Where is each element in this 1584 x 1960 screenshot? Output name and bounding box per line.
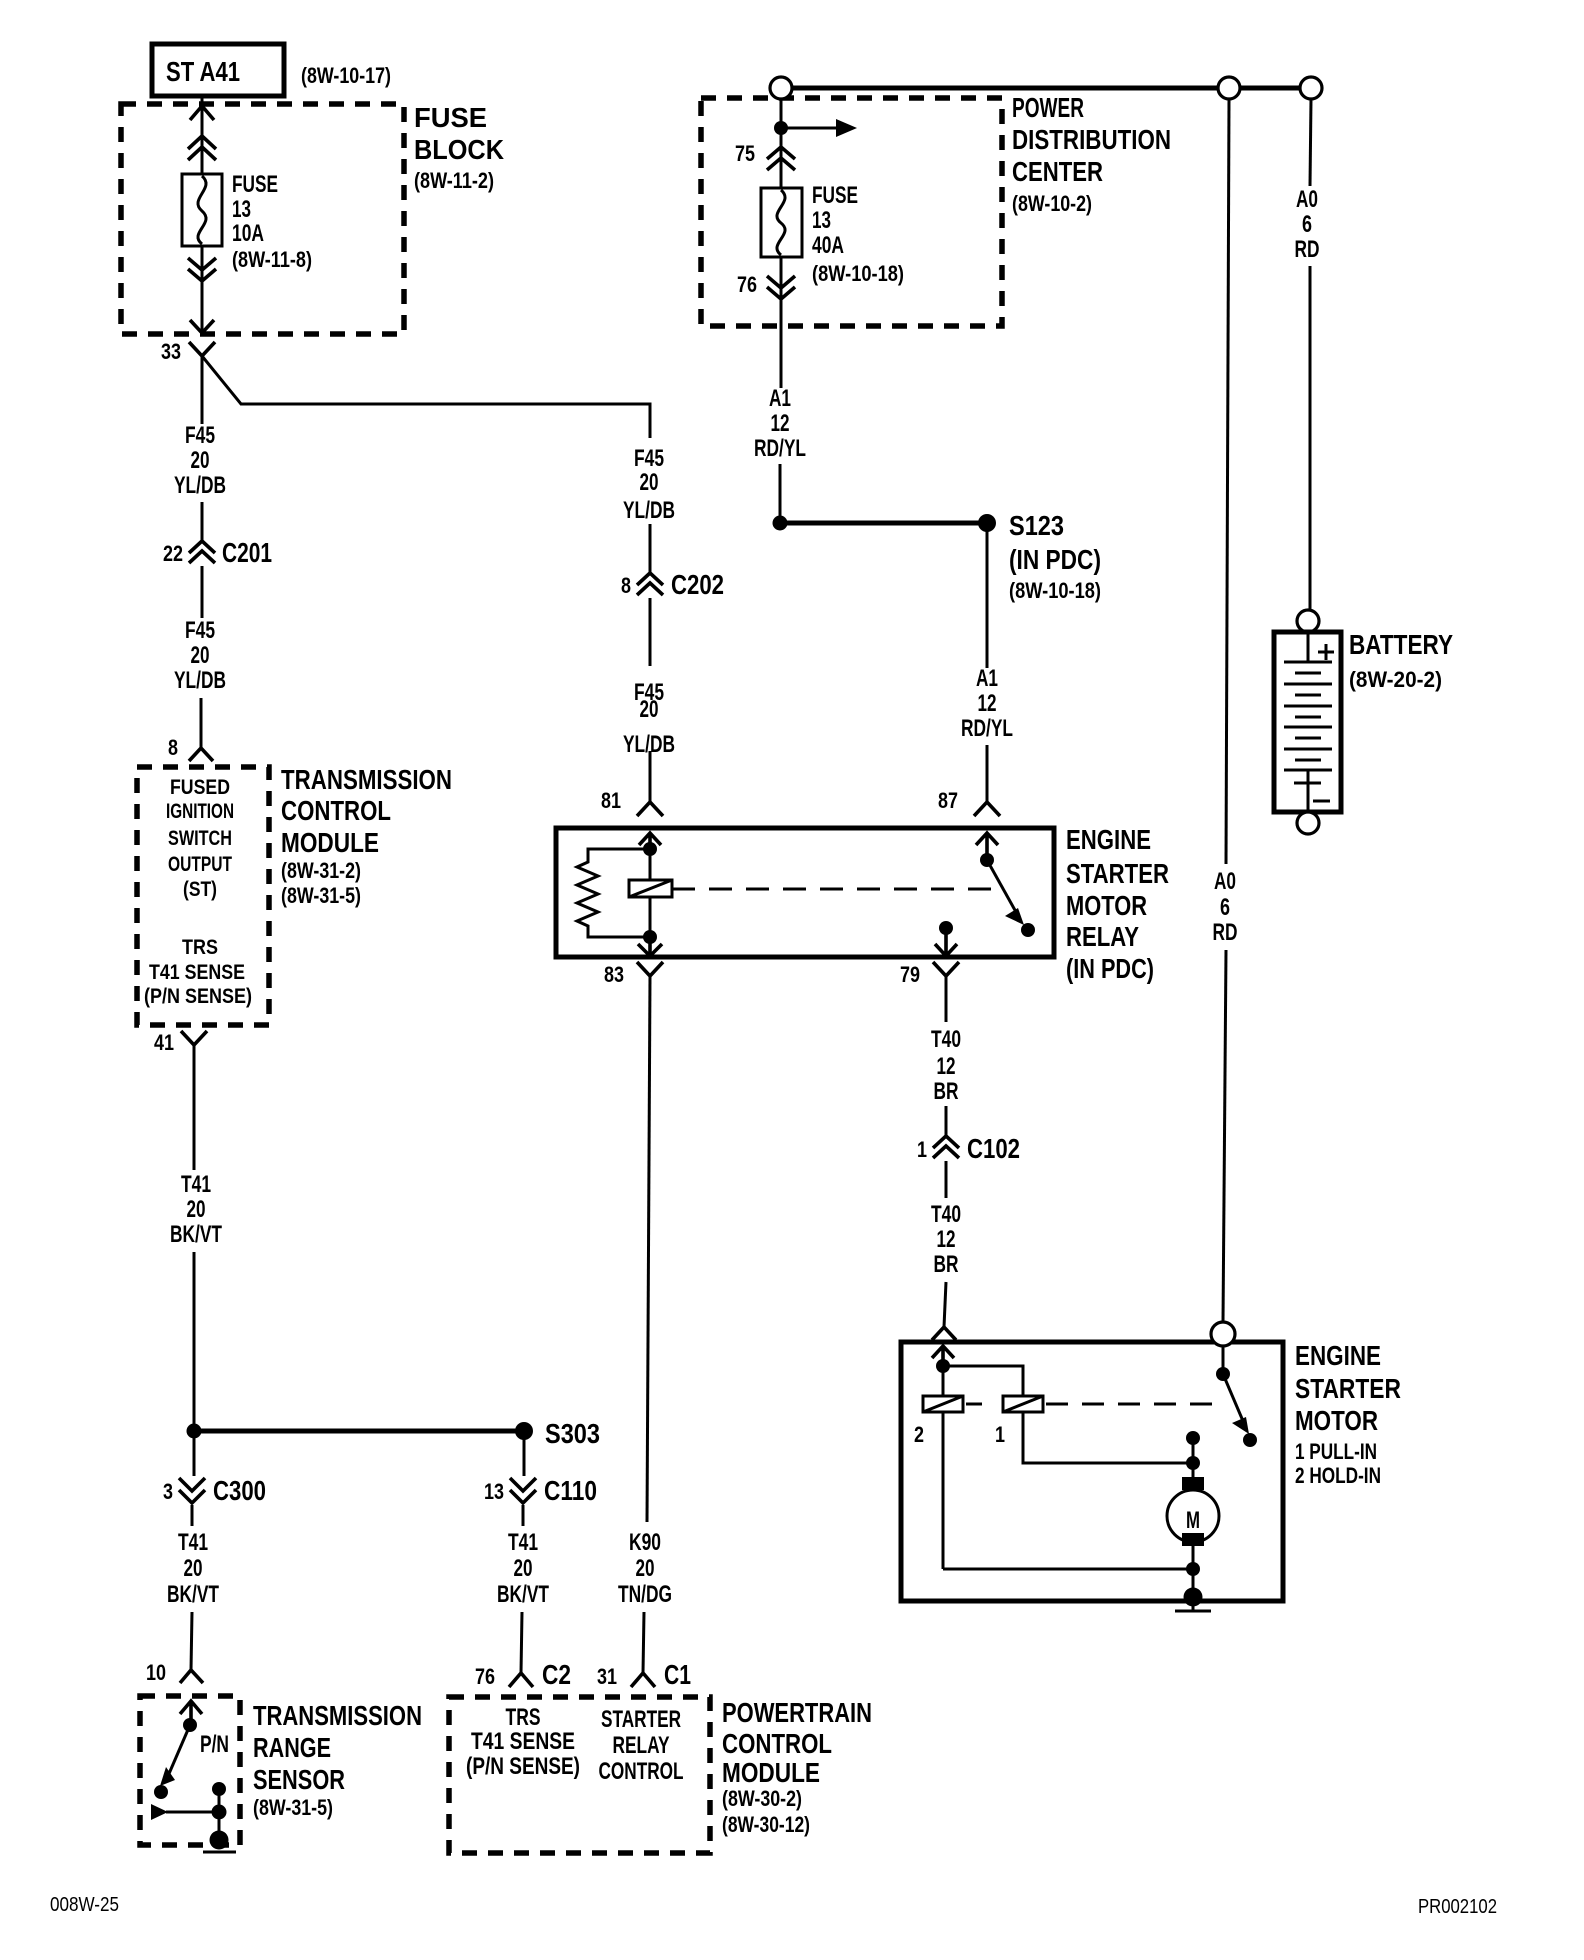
TRS contact to ground wire [218, 1789, 221, 1840]
starter solenoid top junction dot [936, 1359, 950, 1373]
svg-text:OUTPUT: OUTPUT [168, 853, 232, 876]
svg-text:41: 41 [154, 1030, 174, 1055]
svg-text:13: 13 [484, 1479, 504, 1504]
relay switch blade with arrowhead [987, 860, 1035, 937]
wire A1 from S123 down [986, 523, 989, 668]
svg-text:F45: F45 [185, 422, 215, 449]
wire to TRS pin 10 [191, 1612, 192, 1670]
svg-text:FUSE: FUSE [232, 171, 278, 198]
engine starter motor relay box [556, 828, 1054, 957]
wire F45 below pin 33 [201, 356, 204, 424]
pin 31 connector C1 at PCM [597, 1659, 691, 1690]
svg-text:8: 8 [168, 735, 178, 760]
svg-text:20: 20 [184, 1555, 203, 1582]
wire junction to pull-in coil [943, 1366, 1023, 1396]
svg-text:1: 1 [995, 1422, 1005, 1447]
svg-text:ST A41: ST A41 [166, 56, 240, 87]
starter switch pivot dot [1216, 1367, 1230, 1381]
svg-text:RD: RD [1295, 236, 1320, 263]
PCM internal label TRS T41 SENSE (P/N SENSE) [466, 1704, 580, 1780]
contact to motor junction wire [1192, 1438, 1195, 1463]
svg-text:(8W-10-2): (8W-10-2) [1012, 191, 1092, 216]
svg-text:20: 20 [187, 1196, 206, 1223]
solenoid coil 1 pull-in [995, 1396, 1043, 1447]
wire label T40 12 BR [931, 1026, 961, 1105]
svg-text:TN/DG: TN/DG [618, 1581, 672, 1608]
fuse value label FUSE 13 10A (8W-11-8) [232, 171, 312, 272]
wire to PCM pin 31 [643, 1612, 644, 1673]
svg-text:A0: A0 [1214, 868, 1236, 895]
svg-text:87: 87 [938, 788, 958, 813]
svg-text:SENSOR: SENSOR [253, 1764, 345, 1795]
svg-text:(8W-10-18): (8W-10-18) [1009, 578, 1101, 603]
svg-text:C300: C300 [213, 1475, 266, 1506]
svg-text:13: 13 [812, 207, 831, 234]
junction dot inside PDC [774, 121, 788, 135]
PCM internal label STARTER RELAY CONTROL [599, 1706, 684, 1785]
svg-text:DISTRIBUTION: DISTRIBUTION [1012, 124, 1171, 155]
TRS wiper junction dot [212, 1805, 227, 1820]
svg-text:(8W-10-17): (8W-10-17) [301, 63, 391, 88]
branch arrow inside PDC [781, 119, 857, 137]
engine starter motor box [901, 1342, 1283, 1601]
TRS wiper line [166, 1811, 219, 1814]
junction dot at S303 branch [187, 1424, 202, 1439]
wire A1 below PDC [780, 326, 783, 388]
hold-in coil wire down [942, 1366, 945, 1569]
svg-text:FUSED: FUSED [170, 776, 230, 799]
wire splice bus to S303 [194, 1429, 524, 1434]
relay switch contact dot pin 87 [980, 853, 994, 867]
wire to battery positive [1309, 266, 1312, 610]
wire label A1 12 RD/YL lower [961, 665, 1013, 742]
wire fuse to PDC bottom edge [780, 257, 783, 326]
svg-text:YL/DB: YL/DB [174, 667, 226, 694]
svg-text:T41: T41 [508, 1529, 538, 1556]
svg-text:83: 83 [604, 962, 624, 987]
TCM internal label FUSED IGNITION SWITCH OUTPUT (ST) [166, 776, 234, 901]
battery negative terminal [1297, 812, 1319, 834]
svg-text:T41 SENSE: T41 SENSE [471, 1728, 575, 1755]
connector chevrons up inside fuse block [188, 136, 216, 160]
wire below C102 [945, 1161, 948, 1198]
connector C300 [163, 1475, 266, 1506]
svg-text:22: 22 [163, 541, 183, 566]
svg-text:10: 10 [146, 1660, 166, 1685]
connector C102 [917, 1133, 1020, 1164]
power distribution center dashed box [701, 98, 1002, 326]
wire below C201 [201, 566, 204, 618]
svg-text:BR: BR [934, 1078, 959, 1105]
svg-text:P/N: P/N [200, 1731, 229, 1758]
relay pin 79 contact dot [939, 921, 953, 935]
svg-text:C201: C201 [222, 537, 272, 568]
fuse value label FUSE 13 40A (8W-10-18) [812, 182, 904, 286]
svg-text:3: 3 [163, 1479, 173, 1504]
svg-text:YL/DB: YL/DB [623, 497, 675, 524]
powertrain control module dashed box [449, 1697, 710, 1853]
wire A0 to battery [1310, 99, 1311, 186]
pin 75 chevrons [735, 141, 795, 170]
PCM name label POWERTRAIN CONTROL MODULE [722, 1697, 872, 1837]
svg-text:TRANSMISSION: TRANSMISSION [281, 764, 452, 795]
battery feed bus wire [781, 86, 1312, 91]
pull-in coil return wire [1023, 1412, 1193, 1463]
svg-text:(8W-31-5): (8W-31-5) [253, 1795, 333, 1820]
wire label T41 20 BK/VT [167, 1529, 219, 1608]
wire A0 to engine starter motor upper [1226, 99, 1229, 864]
svg-text:CONTROL: CONTROL [281, 795, 391, 826]
svg-text:12: 12 [937, 1226, 956, 1253]
wire fuse to bottom edge [201, 246, 204, 332]
pin 76 connector C2 at PCM [475, 1659, 571, 1690]
svg-text:BATTERY: BATTERY [1349, 629, 1453, 660]
svg-text:75: 75 [735, 141, 755, 166]
node battery feed at PDC [770, 77, 792, 99]
battery positive terminal [1297, 610, 1319, 632]
svg-text:T41 SENSE: T41 SENSE [149, 961, 245, 984]
arrow up at fuse block top edge [190, 106, 214, 120]
svg-text:A1: A1 [976, 665, 998, 692]
arrow up at starter box top edge [932, 1346, 954, 1366]
wire to C202 [649, 524, 652, 572]
wire A0 stub into starter box [1222, 1346, 1225, 1374]
svg-text:(IN PDC): (IN PDC) [1009, 544, 1101, 575]
wire label F45 20 YL/DB center lower [623, 679, 675, 758]
svg-text:1: 1 [917, 1137, 927, 1162]
svg-text:MOTOR: MOTOR [1295, 1405, 1378, 1436]
svg-text:PR002102: PR002102 [1418, 1896, 1497, 1918]
svg-text:K90: K90 [629, 1529, 661, 1556]
wire to relay pin 87 [986, 745, 989, 802]
svg-text:8: 8 [621, 573, 631, 598]
node battery feed mid [1218, 77, 1240, 99]
svg-text:TRS: TRS [506, 1704, 541, 1731]
wire from bus into PDC fuse [780, 99, 783, 188]
svg-text:POWER: POWER [1012, 92, 1084, 123]
relay resistor [577, 849, 650, 937]
wire from ST A41 into fuse block [201, 96, 204, 174]
svg-text:STARTER: STARTER [601, 1706, 681, 1733]
svg-text:79: 79 [900, 962, 920, 987]
connector C202 [621, 569, 724, 600]
arrow up at TRS top edge [180, 1701, 202, 1725]
svg-text:F45: F45 [634, 445, 664, 472]
wire to motor [1192, 1463, 1195, 1478]
svg-text:BK/VT: BK/VT [167, 1581, 219, 1608]
svg-text:YL/DB: YL/DB [174, 472, 226, 499]
svg-text:20: 20 [636, 1555, 655, 1582]
wire label K90 20 TN/DG [618, 1529, 672, 1608]
fuse F13 40A symbol [761, 188, 802, 257]
motor return wire [1192, 1546, 1195, 1597]
wire label T41 20 BK/VT right [497, 1529, 549, 1608]
pin 83 connector [604, 962, 663, 987]
wire below C300 [191, 1505, 194, 1526]
TRS switch blade with arrowhead [154, 1725, 190, 1799]
TRS switch common dot [183, 1718, 197, 1732]
solenoid actuation dashed line [966, 1403, 982, 1406]
pin 81 connector at relay [601, 788, 663, 816]
wire T40 from pin 79 [945, 976, 948, 1022]
svg-text:CONTROL: CONTROL [722, 1728, 832, 1759]
PDC name label POWER DISTRIBUTION CENTER [1012, 92, 1171, 216]
pin 8 connector at TCM [168, 735, 213, 761]
transmission control module dashed box [137, 767, 269, 1025]
wire A0 to engine starter motor lower [1223, 950, 1226, 1322]
svg-text:STARTER: STARTER [1295, 1373, 1401, 1404]
svg-text:(ST): (ST) [183, 878, 217, 901]
svg-text:IGNITION: IGNITION [166, 800, 234, 823]
svg-text:1 PULL-IN: 1 PULL-IN [1295, 1439, 1377, 1464]
svg-text:33: 33 [161, 339, 181, 364]
svg-text:T41: T41 [178, 1529, 208, 1556]
svg-text:13: 13 [232, 196, 251, 223]
svg-text:12: 12 [937, 1053, 956, 1080]
return junction dot [1186, 1562, 1200, 1576]
svg-text:FUSE: FUSE [414, 102, 487, 133]
wire label F45 20 YL/DB [174, 617, 226, 694]
svg-text:S303: S303 [545, 1418, 600, 1449]
svg-text:BK/VT: BK/VT [170, 1221, 222, 1248]
svg-text:A0: A0 [1296, 186, 1318, 213]
fuse block dashed box [121, 104, 404, 334]
svg-text:CONTROL: CONTROL [599, 1758, 684, 1785]
svg-text:M: M [1186, 1507, 1200, 1534]
branch wire from pin 33 to center column [202, 356, 650, 438]
starter switch blade with arrowhead [1223, 1374, 1257, 1447]
svg-text:12: 12 [978, 690, 997, 717]
svg-text:(8W-11-2): (8W-11-2) [414, 168, 494, 193]
svg-text:RANGE: RANGE [253, 1732, 331, 1763]
transmission range sensor dashed box [140, 1696, 240, 1845]
splice S123 [978, 510, 1101, 603]
svg-text:(8W-30-12): (8W-30-12) [722, 1812, 810, 1837]
hold-in coil return wire [943, 1568, 1193, 1571]
wire below C202 [649, 598, 652, 666]
svg-text:TRANSMISSION: TRANSMISSION [253, 1700, 422, 1731]
arrow down at fuse block bottom edge [190, 320, 214, 333]
svg-text:RD/YL: RD/YL [961, 715, 1013, 742]
wire label T41 20 BK/VT [170, 1171, 222, 1248]
wire label A0 6 RD [1295, 186, 1320, 263]
relay coil K1 [629, 849, 672, 937]
svg-text:008W-25: 008W-25 [50, 1894, 119, 1916]
svg-text:C202: C202 [671, 569, 724, 600]
wire below junction to C300 [193, 1431, 196, 1476]
svg-text:81: 81 [601, 788, 621, 813]
connector chevrons down inside fuse block [188, 258, 216, 281]
svg-text:CENTER: CENTER [1012, 156, 1103, 187]
svg-text:MODULE: MODULE [281, 827, 379, 858]
svg-text:(8W-31-2): (8W-31-2) [281, 858, 361, 883]
junction dot at S123 branch [773, 516, 788, 531]
wire to PCM pin 76 lower [521, 1612, 522, 1673]
svg-text:20: 20 [640, 469, 659, 496]
svg-text:A1: A1 [769, 385, 791, 412]
TRS contact dot upper [212, 1782, 226, 1796]
svg-text:(IN PDC): (IN PDC) [1066, 953, 1154, 984]
svg-text:STARTER: STARTER [1066, 858, 1169, 889]
arrow down at relay bottom edge for pin 79 [935, 928, 957, 956]
svg-text:C1: C1 [664, 1659, 691, 1690]
svg-text:T40: T40 [931, 1026, 961, 1053]
svg-text:(8W-10-18): (8W-10-18) [812, 261, 904, 286]
svg-text:POWERTRAIN: POWERTRAIN [722, 1697, 872, 1728]
svg-text:MODULE: MODULE [722, 1757, 820, 1788]
svg-text:2: 2 [914, 1422, 924, 1447]
relay coil top junction dot [643, 842, 657, 856]
wire to splice S123 [779, 464, 782, 523]
wire from S303 to C110 [523, 1431, 526, 1476]
svg-text:76: 76 [475, 1664, 495, 1689]
wire label T40 12 BR lower [931, 1201, 961, 1278]
connector C201 [163, 537, 272, 568]
fuse block name label [414, 102, 504, 193]
fuse F13 10A symbol [182, 174, 222, 246]
svg-text:12: 12 [771, 410, 790, 437]
battery [1274, 632, 1341, 812]
svg-text:20: 20 [191, 447, 210, 474]
svg-text:BK/VT: BK/VT [497, 1581, 549, 1608]
wire to starter motor pin [944, 1282, 946, 1327]
wire to TCM pin 8 [200, 698, 203, 748]
starter motor M [1167, 1477, 1219, 1546]
svg-text:31: 31 [597, 1664, 617, 1689]
pin 33 connector [161, 339, 215, 364]
pin connector at starter motor [932, 1327, 956, 1340]
svg-text:C110: C110 [544, 1475, 597, 1506]
svg-text:6: 6 [1302, 211, 1312, 238]
svg-text:(8W-11-8): (8W-11-8) [232, 247, 312, 272]
pin 76 chevrons [737, 272, 795, 299]
svg-text:6: 6 [1220, 894, 1230, 921]
battery name label [1349, 629, 1453, 692]
svg-text:40A: 40A [812, 232, 844, 259]
wire label F45 20 YL/DB center [623, 445, 675, 524]
splice S303 [515, 1418, 600, 1449]
svg-text:20: 20 [640, 696, 659, 723]
svg-text:RELAY: RELAY [1066, 921, 1139, 952]
svg-text:20: 20 [191, 642, 210, 669]
svg-text:(8W-30-2): (8W-30-2) [722, 1786, 802, 1811]
svg-text:ENGINE: ENGINE [1295, 1340, 1381, 1371]
wire label A1 12 RD/YL [754, 385, 806, 462]
svg-text:TRS: TRS [182, 936, 218, 959]
motor junction dot [1186, 1456, 1200, 1470]
svg-text:(P/N SENSE): (P/N SENSE) [466, 1753, 580, 1780]
svg-text:2 HOLD-IN: 2 HOLD-IN [1295, 1463, 1381, 1488]
starter name label ENGINE STARTER MOTOR [1295, 1340, 1401, 1488]
TCM internal label TRS T41 SENSE (P/N SENSE) [144, 936, 252, 1008]
arrow down at relay bottom edge for pin 83 [638, 937, 662, 956]
wire K90 from pin 83 down [647, 976, 650, 1522]
svg-text:RD/YL: RD/YL [754, 435, 806, 462]
svg-text:SWITCH: SWITCH [168, 827, 232, 850]
svg-text:ENGINE: ENGINE [1066, 824, 1151, 855]
connector box ST A41 [152, 44, 284, 96]
wire to relay pin 81 [649, 751, 652, 802]
svg-text:20: 20 [514, 1555, 533, 1582]
connector C110 [484, 1475, 597, 1506]
svg-text:(8W-20-2): (8W-20-2) [1349, 667, 1442, 692]
svg-text:BLOCK: BLOCK [414, 134, 504, 165]
wire label A0 6 RD lower [1213, 868, 1238, 946]
relay name label ENGINE STARTER MOTOR RELAY (IN PDC) [1066, 824, 1169, 984]
TRS wiper triangle [151, 1804, 168, 1820]
svg-text:(P/N SENSE): (P/N SENSE) [144, 985, 252, 1008]
TRS ground [203, 1831, 236, 1853]
pin 10 connector at TRS [146, 1660, 203, 1685]
wire from C110 to PCM pin 76 [522, 1505, 525, 1526]
wire T41 from pin 41 [193, 1045, 196, 1170]
ground at starter box [1175, 1588, 1211, 1612]
node A0 terminal circle on starter box [1211, 1322, 1235, 1346]
relay coil bottom junction dot [643, 930, 657, 944]
wire splice bus to S123 [780, 521, 987, 526]
pin 79 connector [900, 962, 959, 987]
svg-text:T41: T41 [181, 1171, 211, 1198]
pin 41 connector [154, 1030, 207, 1055]
svg-text:RD: RD [1213, 919, 1238, 946]
svg-text:FUSE: FUSE [812, 182, 858, 209]
arrow up at relay top edge for pin 81 [639, 833, 661, 849]
svg-text:C2: C2 [542, 1659, 571, 1690]
svg-text:C102: C102 [967, 1133, 1020, 1164]
relay actuation dashed line [672, 888, 1000, 891]
pin 87 connector at relay [938, 788, 1000, 816]
svg-text:76: 76 [737, 272, 757, 297]
wire to splice S303 [193, 1252, 196, 1431]
wire label F45 20 YL/DB [174, 422, 226, 499]
TCM name label TRANSMISSION CONTROL MODULE [281, 764, 452, 908]
svg-text:F45: F45 [185, 617, 215, 644]
wire to C102 [945, 1106, 948, 1136]
svg-text:RELAY: RELAY [613, 1732, 670, 1759]
starter switch contact dot [1186, 1431, 1200, 1445]
solenoid coil 2 hold-in [914, 1396, 963, 1447]
wire to C201 [201, 502, 204, 540]
svg-text:(8W-31-5): (8W-31-5) [281, 883, 361, 908]
svg-text:MOTOR: MOTOR [1066, 890, 1147, 921]
svg-text:T40: T40 [931, 1201, 961, 1228]
svg-text:S123: S123 [1009, 510, 1064, 541]
svg-text:BR: BR [934, 1251, 959, 1278]
TRS name label TRANSMISSION RANGE SENSOR [253, 1700, 422, 1820]
arrow up at relay top edge for pin 87 [976, 833, 998, 860]
node battery feed right [1300, 77, 1322, 99]
svg-text:10A: 10A [232, 220, 264, 247]
